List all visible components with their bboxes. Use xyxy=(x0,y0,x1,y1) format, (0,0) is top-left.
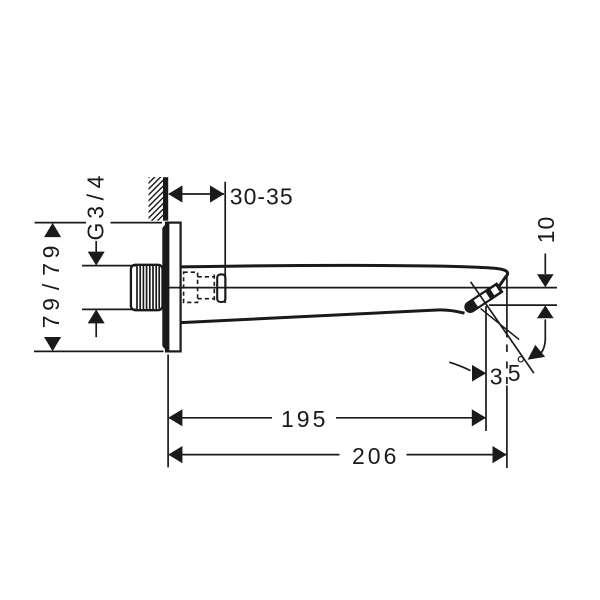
wall surface line xyxy=(163,177,168,220)
arrowhead 30-35 right xyxy=(210,185,224,202)
dimension line G3/4 xyxy=(95,241,97,337)
svg-text:°: ° xyxy=(516,351,525,377)
arrowhead 195 right xyxy=(472,409,486,426)
arrowhead 206 right xyxy=(493,446,507,463)
extension line 206 xyxy=(506,271,508,468)
svg-text:79/79: 79/79 xyxy=(38,241,64,328)
dimension line 195 xyxy=(169,417,486,419)
extension line 195 xyxy=(485,306,487,431)
svg-text:195: 195 xyxy=(281,406,328,432)
outlet axis line 35deg xyxy=(471,282,534,373)
wall hatching xyxy=(140,156,170,261)
dimension line 10 xyxy=(544,254,546,338)
flow straightener xyxy=(217,274,225,302)
label 35 degree xyxy=(490,351,526,389)
extension lines 79/79 xyxy=(34,223,164,352)
aerator housing xyxy=(462,282,504,315)
arrowhead 79/79 top xyxy=(44,223,61,237)
arrowhead 79/79 bottom xyxy=(44,337,61,351)
flow direction line xyxy=(481,309,520,340)
arrowhead G3/4 bottom xyxy=(88,309,105,323)
centerline xyxy=(168,287,557,289)
arrowhead 10 top xyxy=(537,274,554,287)
svg-text:10: 10 xyxy=(533,216,559,244)
spout bottom outline xyxy=(181,310,465,323)
svg-text:3: 3 xyxy=(490,364,503,390)
svg-text:30-35: 30-35 xyxy=(230,183,294,209)
angle arc xyxy=(539,338,546,356)
leader line 35 xyxy=(449,362,470,370)
extension lines G3/4 xyxy=(82,266,138,310)
escutcheon plate xyxy=(166,223,181,352)
extension line 30-35 xyxy=(224,182,226,303)
spout top outline xyxy=(181,265,508,287)
hidden cartridge outline (dashed) xyxy=(184,272,215,302)
threaded connector G3/4 body xyxy=(131,265,163,310)
escutcheon side edge xyxy=(162,223,169,351)
arrowhead 206 left xyxy=(168,446,182,463)
svg-text:206: 206 xyxy=(352,443,399,469)
aerator insert slot xyxy=(474,292,490,306)
dimension line 30-35 xyxy=(169,193,224,195)
dimension line 206 xyxy=(169,454,506,456)
arrowhead leader 35 xyxy=(472,365,486,382)
arrowhead 30-35 left xyxy=(168,185,182,202)
arrowhead 195 left xyxy=(168,409,182,426)
arrowhead 10 bottom xyxy=(537,305,554,318)
arrowhead G3/4 top xyxy=(88,252,105,266)
extension line wall bottom xyxy=(167,355,169,468)
svg-text:G3/4: G3/4 xyxy=(83,172,109,241)
thread lines xyxy=(137,265,159,309)
aerator notch xyxy=(491,286,500,295)
arrowhead angle arc xyxy=(528,345,546,360)
outlet level line xyxy=(489,304,557,306)
